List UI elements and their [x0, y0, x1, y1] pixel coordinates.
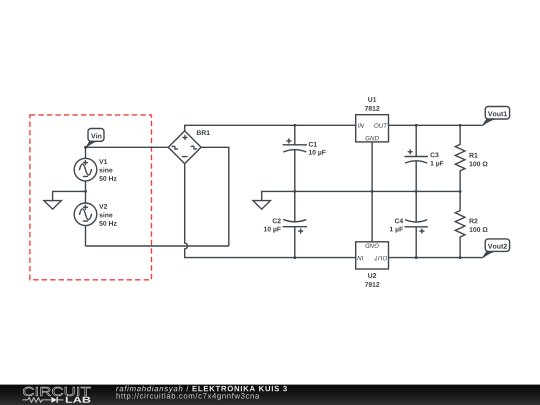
resistor R2 — [455, 191, 465, 257]
footer credit line 1 — [116, 386, 287, 393]
junction U1/U2 GND on ground rail — [371, 190, 374, 193]
wire bridge top lead and top rail to U1 IN — [185, 125, 356, 131]
wire left ground stub — [53, 190, 86, 192]
R1 labels — [470, 153, 488, 166]
Vout2 net flag — [482, 239, 510, 258]
R2 labels — [470, 219, 488, 232]
voltage source V2 — [74, 203, 97, 226]
junction R1 top on +12V rail — [459, 124, 462, 127]
C3 labels — [430, 152, 443, 166]
junction R1/R2 on ground rail — [459, 190, 462, 193]
CircuitLab logo wordmark — [23, 387, 91, 403]
wire U1 OUT to Vout1 — [389, 124, 482, 126]
node junction V1/V2/ground — [84, 190, 87, 193]
U1 labels — [365, 97, 380, 111]
bridge rectifier BR1 — [168, 131, 201, 164]
U2 labels — [365, 273, 380, 287]
junction C3/C4 on ground rail — [415, 190, 418, 193]
wire middle rail — [262, 190, 460, 192]
Vout1 net flag — [482, 107, 510, 127]
wire U1 GND / U2 GND riser — [371, 142, 373, 242]
Vin net flag — [85, 129, 104, 149]
wire bridge right vertex down — [201, 147, 229, 246]
junction C3 top on +12V rail — [415, 124, 418, 127]
junction C2 bottom on -12V rail — [293, 256, 296, 259]
regulator U1 box 7812 — [356, 115, 389, 142]
wire bridge bottom lead with hop, bottom rail to U2 IN — [185, 164, 356, 258]
BR1 label — [197, 130, 210, 135]
V2 labels — [99, 204, 116, 226]
C2 labels — [264, 218, 281, 232]
C4 labels — [390, 218, 403, 232]
node junction Vin — [84, 146, 87, 149]
resistor R1 — [455, 125, 465, 191]
voltage source V1 — [74, 158, 97, 181]
junction R2 bottom on -12V rail — [459, 256, 462, 259]
capacitor C3 — [405, 125, 427, 191]
footer credit line 2 — [117, 393, 260, 400]
red dashed highlight box — [30, 115, 152, 280]
wire V1-V2 link — [85, 181, 87, 203]
wire V1 top lead — [85, 147, 87, 158]
V1 labels — [99, 159, 116, 181]
junction C4 bottom on -12V rail — [415, 256, 418, 259]
capacitor C1 — [283, 125, 306, 191]
wire U2 OUT to Vout2 — [389, 257, 482, 259]
wire Vin node to bridge left vertex — [86, 146, 169, 148]
junction C1/C2 on ground rail — [293, 190, 296, 193]
ground GND2 — [253, 191, 270, 209]
regulator U2 box 7912 (rotated 180) — [356, 242, 389, 269]
C1 labels — [309, 142, 326, 156]
wire V2 bottom lead — [85, 226, 87, 246]
ground GND1 — [44, 191, 61, 209]
capacitor C4 — [405, 191, 427, 257]
junction C1 top on +12V rail — [293, 124, 296, 127]
capacitor C2 — [283, 191, 306, 257]
wire V2 to bridge AC return — [86, 245, 229, 247]
